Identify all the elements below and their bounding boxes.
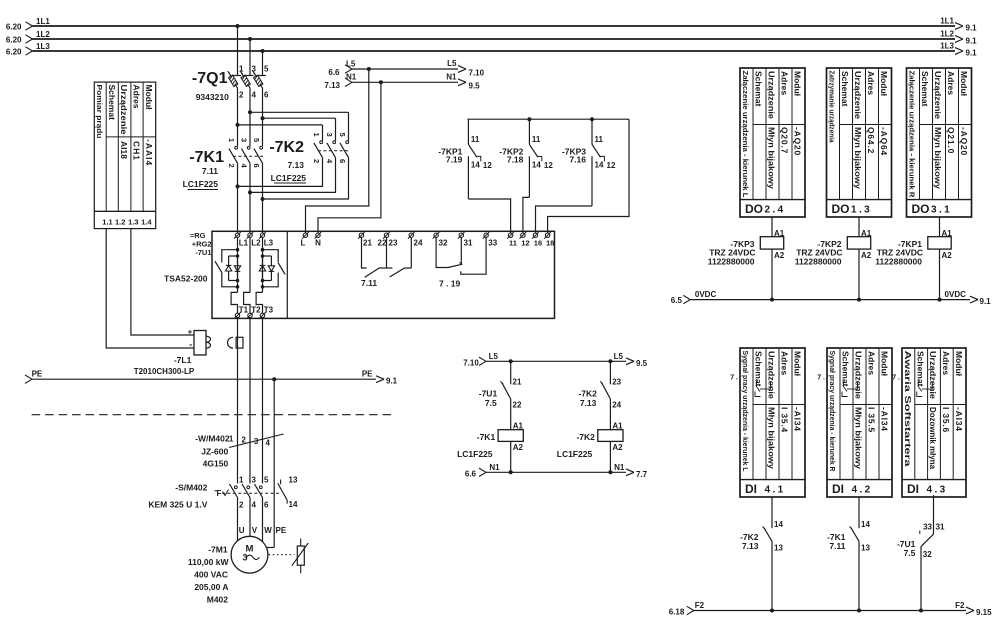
svg-text:I 35.4: I 35.4: [780, 407, 790, 433]
svg-text:PE: PE: [362, 370, 373, 379]
svg-text:1122880000: 1122880000: [875, 256, 922, 266]
svg-text:2: 2: [241, 436, 246, 445]
svg-text:Moduł: Moduł: [879, 71, 889, 97]
svg-text:13: 13: [861, 544, 870, 553]
svg-text:110,00 kW: 110,00 kW: [188, 557, 230, 567]
svg-text:9.1: 9.1: [966, 49, 978, 58]
svg-text:7.11: 7.11: [361, 278, 377, 288]
svg-text:7.13: 7.13: [580, 398, 597, 408]
svg-text:1L1: 1L1: [36, 17, 50, 26]
svg-text:Młyn bijakowy: Młyn bijakowy: [767, 407, 777, 469]
svg-text:-W/M402: -W/M402: [195, 434, 230, 444]
svg-text:3: 3: [325, 133, 334, 137]
svg-text:1L3: 1L3: [940, 42, 954, 51]
svg-text:N1: N1: [346, 73, 357, 82]
svg-text:7.13: 7.13: [742, 541, 759, 551]
svg-text:14: 14: [289, 500, 298, 509]
svg-text:A2: A2: [942, 251, 953, 260]
svg-text:7.10: 7.10: [463, 359, 479, 368]
svg-text:9.15: 9.15: [976, 608, 992, 617]
svg-text:A2: A2: [612, 443, 623, 452]
svg-text:Adres: Adres: [866, 71, 876, 95]
svg-text:L: L: [301, 239, 306, 248]
svg-text:6.18: 6.18: [669, 608, 685, 617]
svg-text:1.1: 1.1: [102, 218, 112, 227]
svg-text:6.5: 6.5: [671, 296, 683, 305]
svg-text:4G150: 4G150: [203, 459, 229, 469]
svg-text:5: 5: [264, 65, 269, 74]
svg-text:6: 6: [338, 159, 347, 163]
svg-text:7.19: 7.19: [446, 155, 463, 165]
svg-text:-AI34: -AI34: [954, 407, 964, 432]
svg-text:DI: DI: [832, 482, 844, 496]
svg-text:11: 11: [471, 135, 480, 144]
svg-text:N1: N1: [489, 463, 500, 472]
svg-text:9343210: 9343210: [196, 92, 229, 102]
svg-text:1122880000: 1122880000: [708, 256, 755, 266]
svg-text:F2: F2: [955, 601, 965, 610]
svg-text:CH1: CH1: [132, 141, 142, 161]
svg-text:7.11: 7.11: [202, 166, 218, 176]
svg-text:LC1F225: LC1F225: [271, 173, 307, 183]
svg-text:Pomiar prądu: Pomiar prądu: [95, 85, 104, 139]
svg-text:A2: A2: [861, 251, 872, 260]
svg-text:KEM 325 U 1.V: KEM 325 U 1.V: [148, 500, 207, 510]
svg-text:Dozownik młyna: Dozownik młyna: [928, 407, 938, 469]
svg-text:14: 14: [861, 520, 870, 529]
svg-text:13: 13: [289, 476, 298, 485]
svg-text:1.2: 1.2: [115, 218, 125, 227]
svg-text:23: 23: [389, 239, 398, 248]
svg-text:-: -: [189, 340, 192, 350]
svg-text:Schemat: Schemat: [107, 85, 117, 121]
svg-text:14: 14: [595, 161, 604, 170]
svg-text:22: 22: [513, 401, 522, 410]
svg-text:9.5: 9.5: [636, 359, 648, 368]
svg-text:Młyn bijakowy: Młyn bijakowy: [767, 127, 777, 189]
svg-text:32: 32: [439, 239, 448, 248]
svg-text:24: 24: [414, 239, 423, 248]
svg-text:LC1F225: LC1F225: [183, 179, 219, 189]
svg-text:7.16: 7.16: [569, 155, 586, 165]
svg-text:-7K2: -7K2: [576, 432, 595, 442]
svg-text:LC1F225: LC1F225: [557, 449, 593, 459]
svg-text:Urządzenie: Urządzenie: [933, 71, 943, 119]
svg-text:3: 3: [254, 437, 259, 446]
svg-text:21: 21: [513, 378, 522, 387]
svg-text:11: 11: [509, 239, 517, 248]
svg-text:Moduł: Moduł: [959, 71, 969, 97]
svg-text:Moduł: Moduł: [793, 351, 803, 377]
svg-text:T2010CH300-LP: T2010CH300-LP: [134, 367, 195, 376]
svg-text:12: 12: [607, 161, 616, 170]
svg-text:2: 2: [312, 159, 321, 163]
svg-text:6.20: 6.20: [6, 36, 22, 45]
svg-text:L5: L5: [447, 59, 457, 68]
svg-text:31: 31: [936, 523, 945, 532]
svg-text:Adres: Adres: [867, 351, 877, 375]
svg-text:DO: DO: [912, 202, 930, 216]
svg-text:7.7: 7.7: [636, 470, 648, 479]
svg-text:DO: DO: [745, 202, 763, 216]
svg-text:7 .: 7 .: [730, 375, 738, 382]
svg-text:DI: DI: [907, 482, 919, 496]
svg-text:2: 2: [239, 501, 244, 510]
svg-text:3: 3: [240, 138, 249, 142]
svg-text:Schemat: Schemat: [841, 351, 851, 387]
svg-text:Moduł: Moduł: [954, 351, 964, 377]
svg-text:2.4: 2.4: [765, 205, 786, 216]
svg-text:AI18: AI18: [119, 141, 129, 159]
svg-text:L5: L5: [489, 352, 499, 361]
svg-text:-AQ64: -AQ64: [879, 127, 889, 156]
svg-text:18: 18: [546, 239, 554, 248]
svg-text:Urządzenie: Urządzenie: [928, 351, 938, 399]
svg-text:-AI34: -AI34: [793, 407, 803, 432]
svg-text:Schemat: Schemat: [915, 351, 925, 387]
svg-text:1L3: 1L3: [36, 42, 50, 51]
svg-text:3: 3: [243, 553, 248, 563]
svg-text:205,00 A: 205,00 A: [194, 582, 228, 592]
svg-text:4: 4: [266, 439, 271, 448]
svg-text:3: 3: [252, 476, 257, 485]
svg-text:Zatrzymanie urządzenia: Zatrzymanie urządzenia: [828, 71, 835, 143]
svg-text:Schemat: Schemat: [920, 71, 930, 107]
svg-text:Urządzenie: Urządzenie: [854, 351, 864, 399]
svg-text:L2: L2: [251, 239, 261, 248]
svg-text:24: 24: [612, 401, 621, 410]
svg-text:2: 2: [227, 164, 236, 168]
svg-text:Sygnał pracy urządzenia - kier: Sygnał pracy urządzenia - kierunek R: [828, 351, 835, 472]
svg-text:-AQ20: -AQ20: [959, 127, 969, 156]
svg-text:6.20: 6.20: [6, 48, 22, 57]
svg-text:400 VAC: 400 VAC: [194, 570, 228, 580]
svg-text:9.1: 9.1: [966, 37, 978, 46]
svg-text:6.6: 6.6: [328, 68, 340, 77]
svg-text:5: 5: [338, 133, 347, 137]
svg-text:Awaria Softstartera: Awaria Softstartera: [903, 351, 912, 468]
svg-text:5: 5: [252, 138, 261, 142]
svg-text:Młyn bijakowy: Młyn bijakowy: [853, 127, 863, 189]
svg-text:11: 11: [532, 135, 541, 144]
svg-text:Urządzenie: Urządzenie: [119, 85, 129, 135]
svg-text:9.1: 9.1: [980, 297, 992, 306]
svg-text:4.3: 4.3: [927, 485, 948, 496]
svg-text:0VDC: 0VDC: [695, 290, 717, 299]
svg-text:-7M1: -7M1: [208, 545, 228, 555]
svg-text:PE: PE: [276, 526, 287, 535]
svg-text:1.4: 1.4: [141, 218, 152, 227]
svg-text:1L1: 1L1: [940, 17, 954, 26]
svg-text:Q64.2: Q64.2: [866, 127, 876, 154]
svg-text:13: 13: [774, 544, 783, 553]
svg-text:4: 4: [252, 501, 257, 510]
svg-text:-7K2: -7K2: [269, 139, 304, 156]
svg-text:L3: L3: [264, 239, 274, 248]
svg-text:Q21.0: Q21.0: [946, 127, 956, 154]
svg-text:33: 33: [488, 239, 497, 248]
svg-text:Załączenie urządzenia - kierun: Załączenie urządzenia - kierunek R: [908, 71, 915, 198]
svg-text:5: 5: [264, 476, 269, 485]
svg-text:1122880000: 1122880000: [795, 256, 842, 266]
svg-text:1.3: 1.3: [128, 218, 138, 227]
svg-text:Urządzenie: Urządzenie: [767, 351, 777, 399]
svg-text:4: 4: [252, 91, 257, 100]
svg-text:L1: L1: [239, 239, 249, 248]
svg-text:Moduł: Moduł: [880, 351, 890, 377]
svg-text:-S/M402: -S/M402: [175, 483, 207, 493]
svg-text:1: 1: [229, 434, 234, 443]
svg-text:14: 14: [532, 161, 541, 170]
svg-text:31: 31: [464, 239, 473, 248]
svg-text:Adres: Adres: [132, 85, 142, 109]
svg-text:Adres: Adres: [946, 71, 956, 95]
svg-text:7.5: 7.5: [485, 398, 497, 408]
svg-text:N1: N1: [446, 73, 457, 82]
svg-text:L5: L5: [614, 352, 624, 361]
svg-text:Sygnał pracy urządzenia - kier: Sygnał pracy urządzenia - kierunek L: [741, 351, 748, 473]
svg-text:7.18: 7.18: [507, 155, 524, 165]
svg-text:M402: M402: [207, 595, 229, 605]
svg-text:16: 16: [534, 239, 542, 248]
svg-text:-AAI4: -AAI4: [144, 139, 154, 166]
svg-text:JZ-600: JZ-600: [201, 447, 228, 457]
svg-text:7.10: 7.10: [469, 69, 485, 78]
svg-text:33: 33: [923, 523, 932, 532]
svg-text:TSA52-200: TSA52-200: [164, 274, 208, 284]
svg-text:F2: F2: [695, 601, 705, 610]
svg-text:Młyn bijakowy: Młyn bijakowy: [933, 127, 943, 189]
svg-text:Q20.7: Q20.7: [780, 127, 790, 154]
svg-text:T2: T2: [251, 306, 261, 315]
svg-text:1: 1: [312, 133, 321, 137]
svg-text:11: 11: [595, 135, 604, 144]
svg-text:7 .: 7 .: [817, 375, 825, 382]
svg-text:Schemat: Schemat: [754, 351, 764, 387]
svg-text:1L2: 1L2: [36, 30, 50, 39]
svg-text:14: 14: [774, 520, 783, 529]
svg-text:L5: L5: [346, 60, 356, 69]
svg-text:-7K1: -7K1: [477, 432, 496, 442]
svg-text:-7Q1: -7Q1: [192, 70, 228, 87]
svg-text:6: 6: [264, 501, 269, 510]
svg-text:Schemat: Schemat: [840, 71, 850, 107]
svg-text:1: 1: [239, 476, 244, 485]
svg-text:DO: DO: [832, 202, 850, 216]
svg-text:Urządzenie: Urządzenie: [853, 71, 863, 119]
svg-text:Adres: Adres: [780, 351, 790, 375]
svg-text:Młyn bijakowy: Młyn bijakowy: [854, 407, 864, 469]
svg-text:0VDC: 0VDC: [945, 290, 967, 299]
svg-text:22: 22: [378, 239, 387, 248]
svg-text:-AI34: -AI34: [880, 407, 890, 432]
svg-text:21: 21: [363, 239, 372, 248]
svg-text:LC1F225: LC1F225: [457, 449, 493, 459]
svg-text:7.13: 7.13: [324, 81, 340, 90]
svg-text:-7L1: -7L1: [174, 355, 192, 365]
svg-text:Załączenie urządzenia - kierun: Załączenie urządzenia - kierunek L: [741, 71, 748, 199]
svg-text:9.5: 9.5: [469, 82, 481, 91]
svg-text:1: 1: [227, 138, 236, 142]
svg-text:U: U: [239, 526, 245, 535]
svg-text:2: 2: [239, 91, 244, 100]
svg-text:12: 12: [521, 239, 529, 248]
svg-text:4.2: 4.2: [852, 485, 873, 496]
svg-text:7.13: 7.13: [287, 160, 304, 170]
svg-text:W: W: [264, 526, 272, 535]
svg-text:I 35.6: I 35.6: [941, 407, 951, 433]
svg-text:12: 12: [544, 161, 553, 170]
svg-text:7.11: 7.11: [829, 541, 845, 551]
svg-text:N1: N1: [614, 463, 625, 472]
svg-text:12: 12: [483, 161, 492, 170]
svg-text:Moduł: Moduł: [144, 85, 154, 111]
svg-text:14: 14: [471, 161, 480, 170]
svg-text:9.1: 9.1: [966, 24, 978, 33]
svg-text:23: 23: [612, 378, 621, 387]
svg-text:Adres: Adres: [941, 351, 951, 375]
svg-text:-AQ20: -AQ20: [793, 127, 803, 156]
svg-text:32: 32: [923, 550, 932, 559]
svg-text:V: V: [252, 526, 258, 535]
svg-text:4.1: 4.1: [765, 485, 786, 496]
svg-text:Adres: Adres: [780, 71, 790, 95]
svg-text:I 35.5: I 35.5: [867, 407, 877, 433]
svg-text:3.1: 3.1: [931, 205, 952, 216]
svg-text:PE: PE: [32, 370, 43, 379]
svg-text:Schemat: Schemat: [754, 71, 764, 107]
svg-text:-7U1: -7U1: [195, 248, 211, 257]
svg-text:7 .: 7 .: [892, 375, 900, 382]
svg-text:9.1: 9.1: [386, 377, 398, 386]
svg-text:DI: DI: [745, 482, 757, 496]
svg-text:T1: T1: [239, 306, 249, 315]
svg-text:7 . 19: 7 . 19: [439, 278, 461, 288]
svg-text:A2: A2: [513, 443, 524, 452]
svg-text:1L2: 1L2: [940, 30, 954, 39]
svg-text:Moduł: Moduł: [793, 71, 803, 97]
svg-text:6.6: 6.6: [465, 470, 477, 479]
svg-text:6: 6: [264, 91, 269, 100]
svg-text:1.3: 1.3: [851, 205, 872, 216]
svg-text:-7K1: -7K1: [189, 149, 224, 166]
svg-text:N: N: [315, 239, 321, 248]
svg-text:7.5: 7.5: [904, 548, 916, 558]
svg-text:6: 6: [252, 164, 261, 168]
svg-text:+: +: [188, 328, 193, 337]
svg-text:6.20: 6.20: [6, 23, 22, 32]
svg-text:Urządzenie: Urządzenie: [767, 71, 777, 119]
svg-text:A2: A2: [774, 251, 785, 260]
svg-text:T3: T3: [264, 306, 274, 315]
